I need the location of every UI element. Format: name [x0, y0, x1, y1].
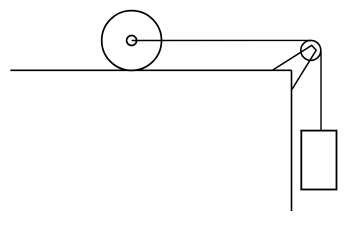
wheel W1 [102, 11, 162, 71]
string from pulley to block [320, 50, 322, 130]
pulley bracket [272, 45, 316, 89]
table surface [10, 69, 291, 71]
string from hub to pulley [132, 39, 311, 41]
hanging block [301, 131, 336, 190]
table right edge [291, 70, 293, 211]
wheel hub [127, 36, 137, 46]
pulley P1 [301, 40, 321, 60]
